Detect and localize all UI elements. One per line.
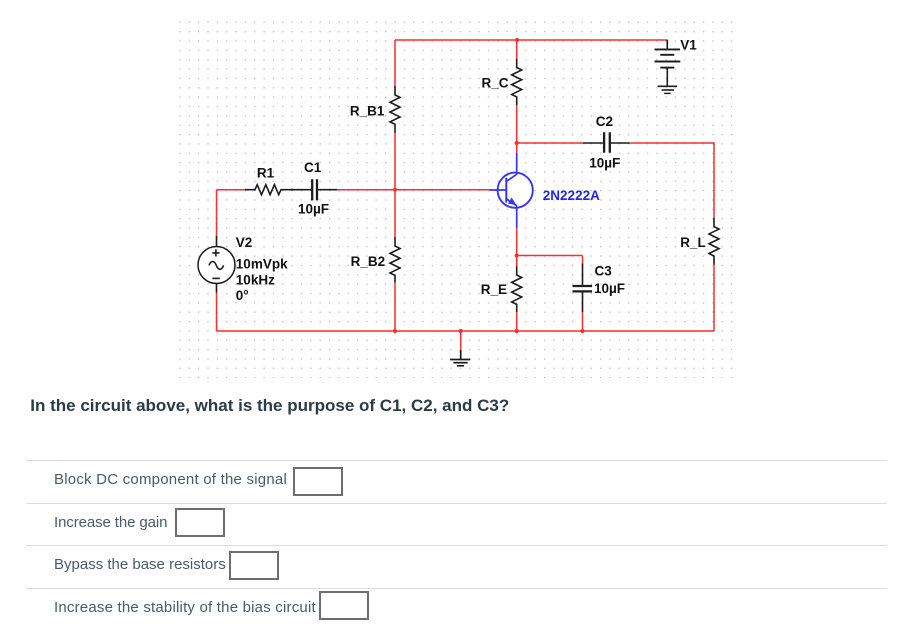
svg-text:10µF: 10µF [589,156,620,171]
svg-text:10µF: 10µF [298,202,329,217]
svg-text:V1: V1 [680,38,697,53]
svg-text:C3: C3 [595,264,613,279]
svg-text:R_B2: R_B2 [351,254,386,269]
svg-text:10µF: 10µF [594,281,625,296]
svg-text:R1: R1 [257,165,275,180]
svg-text:0°: 0° [236,288,249,303]
svg-text:V2: V2 [236,235,253,250]
svg-text:2N2222A: 2N2222A [543,188,600,203]
svg-text:R_C: R_C [482,75,509,90]
svg-text:10mVpk: 10mVpk [236,256,288,271]
svg-text:10kHz: 10kHz [236,272,275,287]
svg-text:R_L: R_L [680,235,706,250]
svg-text:R_B1: R_B1 [350,104,385,119]
svg-text:C2: C2 [596,114,613,129]
svg-text:R_E: R_E [481,282,507,297]
svg-text:C1: C1 [304,160,322,175]
